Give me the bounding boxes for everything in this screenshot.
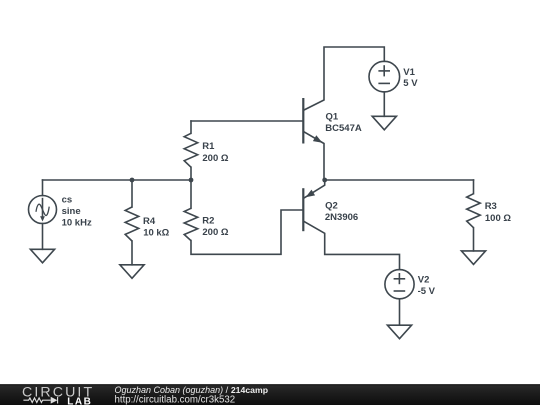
- svg-text:LAB: LAB: [67, 396, 92, 405]
- svg-text:BC547A: BC547A: [325, 123, 362, 134]
- svg-text:10 kHz: 10 kHz: [62, 218, 92, 229]
- svg-text:Oguzhan Coban (oguzhan) / 214c: Oguzhan Coban (oguzhan) / 214camp: [115, 385, 269, 395]
- svg-text:R3: R3: [485, 201, 497, 212]
- svg-text:http://circuitlab.com/cr3k532: http://circuitlab.com/cr3k532: [115, 395, 236, 405]
- svg-text:V2: V2: [418, 274, 430, 285]
- svg-text:R4: R4: [143, 216, 156, 227]
- svg-text:200 Ω: 200 Ω: [202, 153, 228, 164]
- svg-text:10 kΩ: 10 kΩ: [143, 227, 169, 238]
- svg-text:sine: sine: [62, 206, 81, 217]
- svg-text:cs: cs: [62, 195, 73, 206]
- svg-text:2N3906: 2N3906: [325, 212, 358, 223]
- svg-text:R2: R2: [202, 215, 214, 226]
- svg-text:100 Ω: 100 Ω: [485, 213, 511, 224]
- svg-text:200 Ω: 200 Ω: [202, 227, 228, 238]
- svg-text:Q2: Q2: [325, 201, 338, 212]
- svg-text:Q1: Q1: [326, 111, 339, 122]
- svg-text:5 V: 5 V: [403, 78, 418, 89]
- svg-text:-5 V: -5 V: [418, 286, 436, 297]
- svg-text:R1: R1: [202, 141, 215, 152]
- svg-text:V1: V1: [403, 67, 415, 78]
